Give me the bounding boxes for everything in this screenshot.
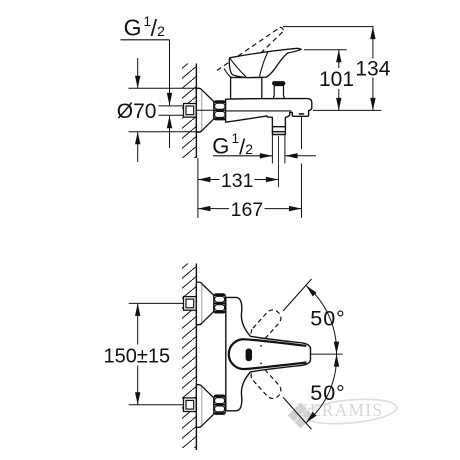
- wall hatching (front view): [182, 264, 196, 449]
- dimension 150 plus/minus 15: [129, 302, 184, 304]
- lower supply fitting square (front view): [184, 398, 197, 412]
- lever swung up position (dashed, front view): [248, 307, 284, 344]
- G 1/2 thread dimension line vertical: [169, 40, 171, 106]
- lever swung down position (dashed, front view): [248, 364, 284, 401]
- lower connection nut (front view): [214, 395, 225, 414]
- svg-text:2: 2: [157, 23, 165, 39]
- lever crease lines: [230, 58, 246, 77]
- escutcheon shading line: [201, 91, 203, 130]
- 50 degree ray upper: [283, 279, 312, 311]
- watermark ellipse swoosh: [302, 396, 398, 427]
- svg-text:1: 1: [231, 131, 239, 146]
- svg-text:G: G: [124, 14, 142, 40]
- aerator detail dash: [299, 113, 304, 115]
- upper escutcheon (front view): [196, 282, 214, 325]
- wall hatching (side view): [182, 64, 196, 159]
- svg-text:G: G: [212, 133, 229, 158]
- supply fitting square (side view): [184, 104, 197, 118]
- dimension 131: [198, 179, 220, 181]
- faucet body and spout (side view): [226, 99, 312, 135]
- raised lever reference line for 134: [283, 26, 374, 28]
- lever handle (side view): [229, 48, 301, 77]
- 50 degree ray lower: [283, 397, 312, 429]
- wall face line (side view): [195, 64, 197, 159]
- diameter 70 dimension: [129, 87, 200, 89]
- body mid parting line: [226, 110, 292, 112]
- svg-text:167: 167: [231, 199, 264, 221]
- cartridge base (side view): [231, 78, 262, 100]
- fitting reference lines: [159, 105, 184, 107]
- dimension 167: [198, 208, 229, 210]
- 50 degree arc lower with arrows: [306, 354, 337, 423]
- shower outlet extension lines: [271, 135, 273, 164]
- watermark logo diamonds: [294, 402, 306, 414]
- wall face line (front view): [195, 264, 197, 451]
- svg-text:150±15: 150±15: [104, 345, 171, 367]
- wall extension line down to 167 dimension: [197, 158, 199, 218]
- svg-text:50°: 50°: [310, 306, 346, 330]
- upper connection nut (front view): [214, 294, 225, 313]
- connection nut (side view): [214, 101, 226, 120]
- spout tip extension line: [301, 116, 303, 149]
- svg-text:131: 131: [221, 170, 254, 192]
- centerline (front view): [310, 353, 343, 355]
- lever top reference line for 101: [304, 49, 347, 51]
- lever grip front face (horseshoe): [229, 339, 306, 369]
- svg-text:134: 134: [355, 58, 390, 81]
- outlet collar groove lines: [272, 126, 285, 128]
- lower escutcheon (front view): [196, 385, 214, 428]
- lever dark keyhole: [246, 349, 252, 362]
- body bottom reference line: [313, 109, 381, 111]
- upper supply fitting square (front view): [184, 297, 197, 311]
- lever raised position (dashed, side view): [217, 27, 280, 70]
- svg-text:2: 2: [245, 141, 253, 157]
- connection centerline (side view): [196, 109, 214, 111]
- svg-text:Ø70: Ø70: [117, 100, 157, 123]
- diverter knob (side view): [272, 81, 285, 85]
- dimension 101: [338, 50, 340, 68]
- shower outlet centerline extension: [278, 136, 280, 187]
- svg-text:50°: 50°: [310, 381, 346, 405]
- dimension 134: [372, 27, 374, 59]
- faucet body silhouette (front view): [226, 297, 311, 410]
- svg-text:101: 101: [319, 68, 354, 91]
- detail dots on lever face: [260, 345, 262, 347]
- escutcheon flange and cone (side view): [196, 88, 214, 132]
- 50 degree arc upper with arrows: [306, 286, 337, 355]
